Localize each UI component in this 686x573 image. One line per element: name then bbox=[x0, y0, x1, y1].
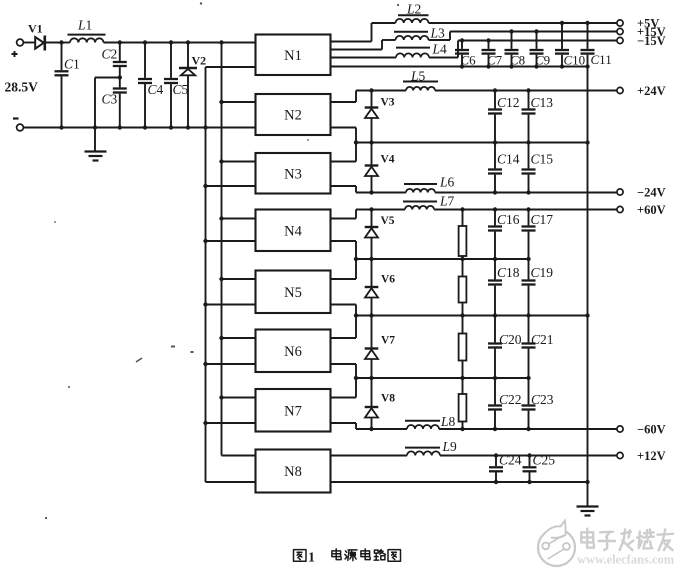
N1 return junctions bbox=[460, 64, 590, 68]
svg-text:C19: C19 bbox=[531, 265, 554, 280]
+12V rail junctions bbox=[494, 453, 532, 457]
ground symbol bottom bbox=[577, 507, 599, 516]
wire node A to L1 bbox=[62, 42, 71, 44]
stack rail 1 junctions bbox=[354, 257, 531, 261]
watermark text 电子发烧友 bbox=[581, 529, 594, 548]
negative bus junctions bbox=[203, 184, 207, 425]
capacitor C25 bbox=[523, 456, 537, 483]
wire N3 lower input bbox=[206, 185, 256, 187]
wire N4 lower output bbox=[331, 241, 357, 279]
svg-text:N5: N5 bbox=[284, 285, 302, 301]
capacitor C4 bbox=[138, 43, 152, 128]
node A junction bbox=[59, 40, 63, 44]
svg-text:C24: C24 bbox=[499, 453, 522, 468]
svg-text:V8: V8 bbox=[381, 393, 395, 405]
terminal -15V bbox=[617, 34, 666, 48]
inductor L4 bbox=[396, 53, 429, 57]
terminal -24V bbox=[617, 185, 666, 199]
svg-text:1: 1 bbox=[308, 551, 315, 566]
top rail junctions bbox=[118, 40, 224, 44]
capacitor C15 bbox=[522, 143, 536, 193]
-24V rail junctions bbox=[369, 190, 530, 194]
N1 return rail bbox=[331, 66, 588, 68]
caption 图1 电源电路图 bbox=[294, 550, 307, 562]
svg-text:C10: C10 bbox=[564, 53, 586, 68]
svg-text:+60V: +60V bbox=[637, 203, 666, 217]
capacitor C14 bbox=[488, 143, 502, 193]
wire N2 upper output bbox=[331, 91, 357, 103]
svg-text:−15V: −15V bbox=[637, 34, 666, 48]
capacitor C16 bbox=[488, 210, 502, 260]
capacitor C12 bbox=[488, 91, 502, 143]
svg-text:C11: C11 bbox=[591, 52, 612, 67]
svg-text:L2: L2 bbox=[406, 2, 421, 17]
scan specks bbox=[45, 2, 399, 519]
svg-text:C20: C20 bbox=[499, 332, 522, 347]
input + terminal bbox=[12, 39, 24, 57]
svg-text:C14: C14 bbox=[497, 152, 520, 167]
capacitor C2 bbox=[113, 43, 127, 78]
terminal +60V bbox=[617, 203, 666, 217]
terminal -60V bbox=[617, 422, 666, 436]
capacitor C5 bbox=[164, 43, 178, 128]
capacitor C9 bbox=[530, 32, 544, 67]
wire N3 lower output bbox=[331, 186, 357, 193]
svg-text:V7: V7 bbox=[381, 335, 395, 347]
svg-text:C2: C2 bbox=[102, 47, 118, 62]
wire N4 upper input bbox=[222, 218, 256, 220]
module N6 bbox=[256, 330, 331, 373]
resistor R3 bbox=[459, 316, 467, 379]
wire + terminal to diode V1 bbox=[24, 42, 36, 44]
+12V rail left bbox=[331, 455, 408, 457]
wire N5 lower input bbox=[206, 304, 256, 306]
overline L4 bbox=[396, 47, 430, 49]
svg-text:C23: C23 bbox=[531, 392, 554, 407]
inductor L7 bbox=[405, 206, 434, 210]
bottom rail from - terminal bbox=[24, 127, 256, 129]
svg-text:C16: C16 bbox=[497, 212, 520, 227]
capacitor C24 bbox=[489, 456, 503, 483]
svg-text:N1: N1 bbox=[284, 48, 302, 64]
svg-text:L3: L3 bbox=[430, 26, 446, 41]
terminal +15V bbox=[617, 25, 666, 39]
inductor L9 bbox=[407, 451, 440, 455]
-60V rail right bbox=[439, 428, 617, 430]
svg-text:C25: C25 bbox=[533, 453, 556, 468]
wire N6 lower output bbox=[331, 364, 357, 398]
svg-text:−60V: −60V bbox=[637, 422, 666, 436]
watermark logo bbox=[538, 521, 575, 566]
wire V1 to node A bbox=[45, 42, 62, 44]
ground symbol left bbox=[85, 152, 107, 161]
wire N4 lower input bbox=[206, 240, 256, 242]
module N5 bbox=[256, 271, 331, 314]
svg-text:V2: V2 bbox=[192, 54, 207, 68]
svg-text:N2: N2 bbox=[284, 108, 302, 124]
svg-text:C3: C3 bbox=[102, 92, 118, 107]
svg-text:C18: C18 bbox=[497, 265, 520, 280]
bottom rail junctions bbox=[59, 125, 207, 129]
svg-text:L9: L9 bbox=[442, 439, 458, 454]
wire C2C3 junction to ground stem bbox=[95, 78, 120, 152]
svg-text:V4: V4 bbox=[381, 154, 395, 166]
module N3 bbox=[256, 153, 331, 194]
svg-text:C17: C17 bbox=[531, 212, 554, 227]
+15V rail bbox=[429, 32, 617, 41]
svg-text:V5: V5 bbox=[381, 215, 395, 227]
positive bus junctions bbox=[219, 100, 223, 400]
svg-text:C22: C22 bbox=[499, 392, 522, 407]
terminal +24V bbox=[617, 84, 666, 98]
+60V rail right bbox=[434, 209, 617, 211]
svg-text:C13: C13 bbox=[531, 95, 554, 110]
diode V1 bbox=[35, 36, 45, 51]
wire N1 pin1 to L2 bbox=[331, 23, 396, 42]
svg-text:C4: C4 bbox=[148, 82, 164, 97]
svg-text:L7: L7 bbox=[439, 194, 455, 209]
module N4 bbox=[256, 210, 331, 252]
N8 return junctions bbox=[494, 480, 590, 484]
diode V4 bbox=[365, 143, 379, 193]
wire N1 pin2 to L3 bbox=[331, 40, 396, 50]
stack mid rail junctions bbox=[354, 313, 590, 317]
svg-text:N3: N3 bbox=[284, 166, 302, 182]
overline L8 bbox=[405, 420, 440, 422]
wire N3 upper input bbox=[222, 161, 256, 163]
stack rail 3 junctions bbox=[354, 376, 531, 380]
capacitor C10 bbox=[555, 23, 569, 67]
stack junction rail 3 bbox=[356, 377, 529, 379]
+15V rail junctions bbox=[509, 29, 538, 33]
+12V rail right bbox=[440, 455, 617, 457]
svg-text:N8: N8 bbox=[284, 464, 302, 480]
capacitor C22 bbox=[488, 378, 502, 429]
-60V rail left bbox=[356, 428, 407, 430]
module N8 bbox=[256, 450, 331, 493]
top rail after L1 bbox=[104, 42, 256, 44]
wire N4 upper output bbox=[331, 210, 357, 219]
diode V5 bbox=[365, 210, 379, 260]
wire N8 upper input bbox=[222, 455, 256, 457]
+24V rail junctions bbox=[369, 88, 530, 92]
capacitor C19 bbox=[522, 259, 536, 316]
-15V rail junctions bbox=[460, 38, 491, 42]
+24V rail left bbox=[356, 90, 406, 92]
diode V6 bbox=[365, 259, 379, 316]
svg-text:L1: L1 bbox=[77, 18, 92, 33]
input - terminal bbox=[13, 119, 23, 131]
ground bus vertical bbox=[587, 67, 589, 507]
capacitor C8 bbox=[505, 32, 519, 67]
svg-text:N7: N7 bbox=[284, 403, 302, 419]
stack mid rail (grounded) bbox=[356, 315, 588, 317]
wire N7 upper output bbox=[331, 397, 357, 399]
module N1 bbox=[256, 35, 331, 76]
overline L6 bbox=[404, 183, 437, 185]
wire N5 upper input bbox=[222, 278, 256, 280]
diode V3 bbox=[365, 91, 379, 143]
svg-text:L8: L8 bbox=[440, 414, 456, 429]
wire N2 lower output bbox=[331, 128, 357, 143]
wire N5 lower output bbox=[331, 305, 357, 339]
overline L2 bbox=[398, 14, 429, 16]
resistor R1 bbox=[459, 210, 467, 260]
inductor L1 bbox=[70, 38, 104, 42]
capacitor C13 bbox=[522, 91, 536, 143]
wire N1 lower input bbox=[206, 66, 256, 68]
stack junction rail 1 bbox=[356, 258, 529, 260]
N8 return rail bbox=[331, 481, 588, 483]
capacitor C21 bbox=[522, 316, 536, 379]
+5V rail junctions bbox=[560, 21, 590, 25]
svg-text:V3: V3 bbox=[381, 97, 395, 109]
-15V rail bbox=[429, 41, 617, 58]
svg-text:N4: N4 bbox=[284, 223, 302, 239]
-24V rail right bbox=[435, 192, 617, 194]
capacitor C23 bbox=[522, 378, 536, 429]
+60V rail junctions bbox=[369, 207, 530, 211]
+24V rail right bbox=[435, 90, 617, 92]
svg-text:+12V: +12V bbox=[637, 449, 666, 463]
wire N6 upper output bbox=[331, 337, 357, 339]
N2-N3 return rail bbox=[356, 142, 588, 144]
svg-text:28.5V: 28.5V bbox=[5, 80, 39, 95]
-60V rail junctions bbox=[369, 427, 530, 431]
overline L7 bbox=[403, 201, 437, 203]
wire N6 lower input bbox=[206, 363, 256, 365]
+60V rail left bbox=[356, 209, 405, 211]
inductor L5 bbox=[406, 87, 435, 91]
svg-text:−24V: −24V bbox=[637, 185, 666, 199]
capacitor C11 bbox=[581, 23, 595, 67]
svg-text:V6: V6 bbox=[381, 274, 395, 286]
negative bus vertical bbox=[205, 67, 207, 482]
-24V rail left bbox=[356, 192, 406, 194]
svg-text:C15: C15 bbox=[531, 152, 554, 167]
module N2 bbox=[256, 94, 331, 135]
wire N6 upper input bbox=[222, 337, 256, 339]
wire N2 upper input bbox=[222, 101, 256, 103]
wire N7 lower input bbox=[206, 422, 256, 424]
wire N1 pin3 to L4 bbox=[331, 57, 397, 59]
module N7 bbox=[256, 389, 331, 432]
inductor L2 bbox=[396, 19, 429, 23]
svg-text:www.elecfans.com: www.elecfans.com bbox=[577, 553, 675, 567]
capacitor C7 bbox=[482, 41, 496, 67]
svg-text:+24V: +24V bbox=[637, 84, 666, 98]
overline L3 bbox=[394, 31, 428, 33]
overline L1 bbox=[68, 34, 106, 36]
svg-text:L6: L6 bbox=[439, 175, 455, 190]
capacitor C17 bbox=[522, 210, 536, 260]
svg-text:C1: C1 bbox=[64, 57, 80, 72]
inductor L6 bbox=[406, 189, 435, 193]
wire N3 upper output bbox=[331, 143, 357, 162]
wire N5 upper output bbox=[331, 278, 357, 280]
capacitor C20 bbox=[488, 316, 502, 379]
terminal +5V bbox=[617, 16, 660, 30]
resistor R4 bbox=[459, 378, 467, 429]
inductor L8 bbox=[407, 425, 439, 429]
capacitor C1 bbox=[55, 43, 69, 128]
zener diode V2 bbox=[179, 43, 197, 128]
wire N7 upper input bbox=[222, 397, 256, 399]
resistor R2 bbox=[459, 259, 467, 316]
capacitor C3 bbox=[113, 78, 127, 128]
overline L5 bbox=[403, 81, 438, 83]
capacitor C6 bbox=[455, 41, 469, 67]
svg-text:C5: C5 bbox=[173, 82, 189, 97]
diode V7 bbox=[365, 316, 379, 379]
svg-text:L4: L4 bbox=[432, 42, 448, 57]
svg-text:N6: N6 bbox=[284, 344, 302, 360]
positive bus vertical bbox=[221, 43, 223, 456]
diode V8 bbox=[365, 378, 379, 429]
junction C2-C3 bbox=[118, 75, 122, 79]
overline L9 bbox=[405, 447, 440, 449]
wire N8 lower input bbox=[206, 481, 256, 483]
svg-text:C12: C12 bbox=[497, 95, 520, 110]
wire N7 lower output bbox=[331, 423, 357, 429]
inductor L3 bbox=[396, 36, 429, 40]
svg-text:V1: V1 bbox=[28, 22, 43, 36]
capacitor C18 bbox=[488, 259, 502, 316]
svg-text:C21: C21 bbox=[531, 332, 554, 347]
terminal +12V bbox=[617, 449, 666, 463]
N2-N3 return junctions bbox=[354, 140, 590, 144]
+5V rail bbox=[429, 22, 617, 24]
